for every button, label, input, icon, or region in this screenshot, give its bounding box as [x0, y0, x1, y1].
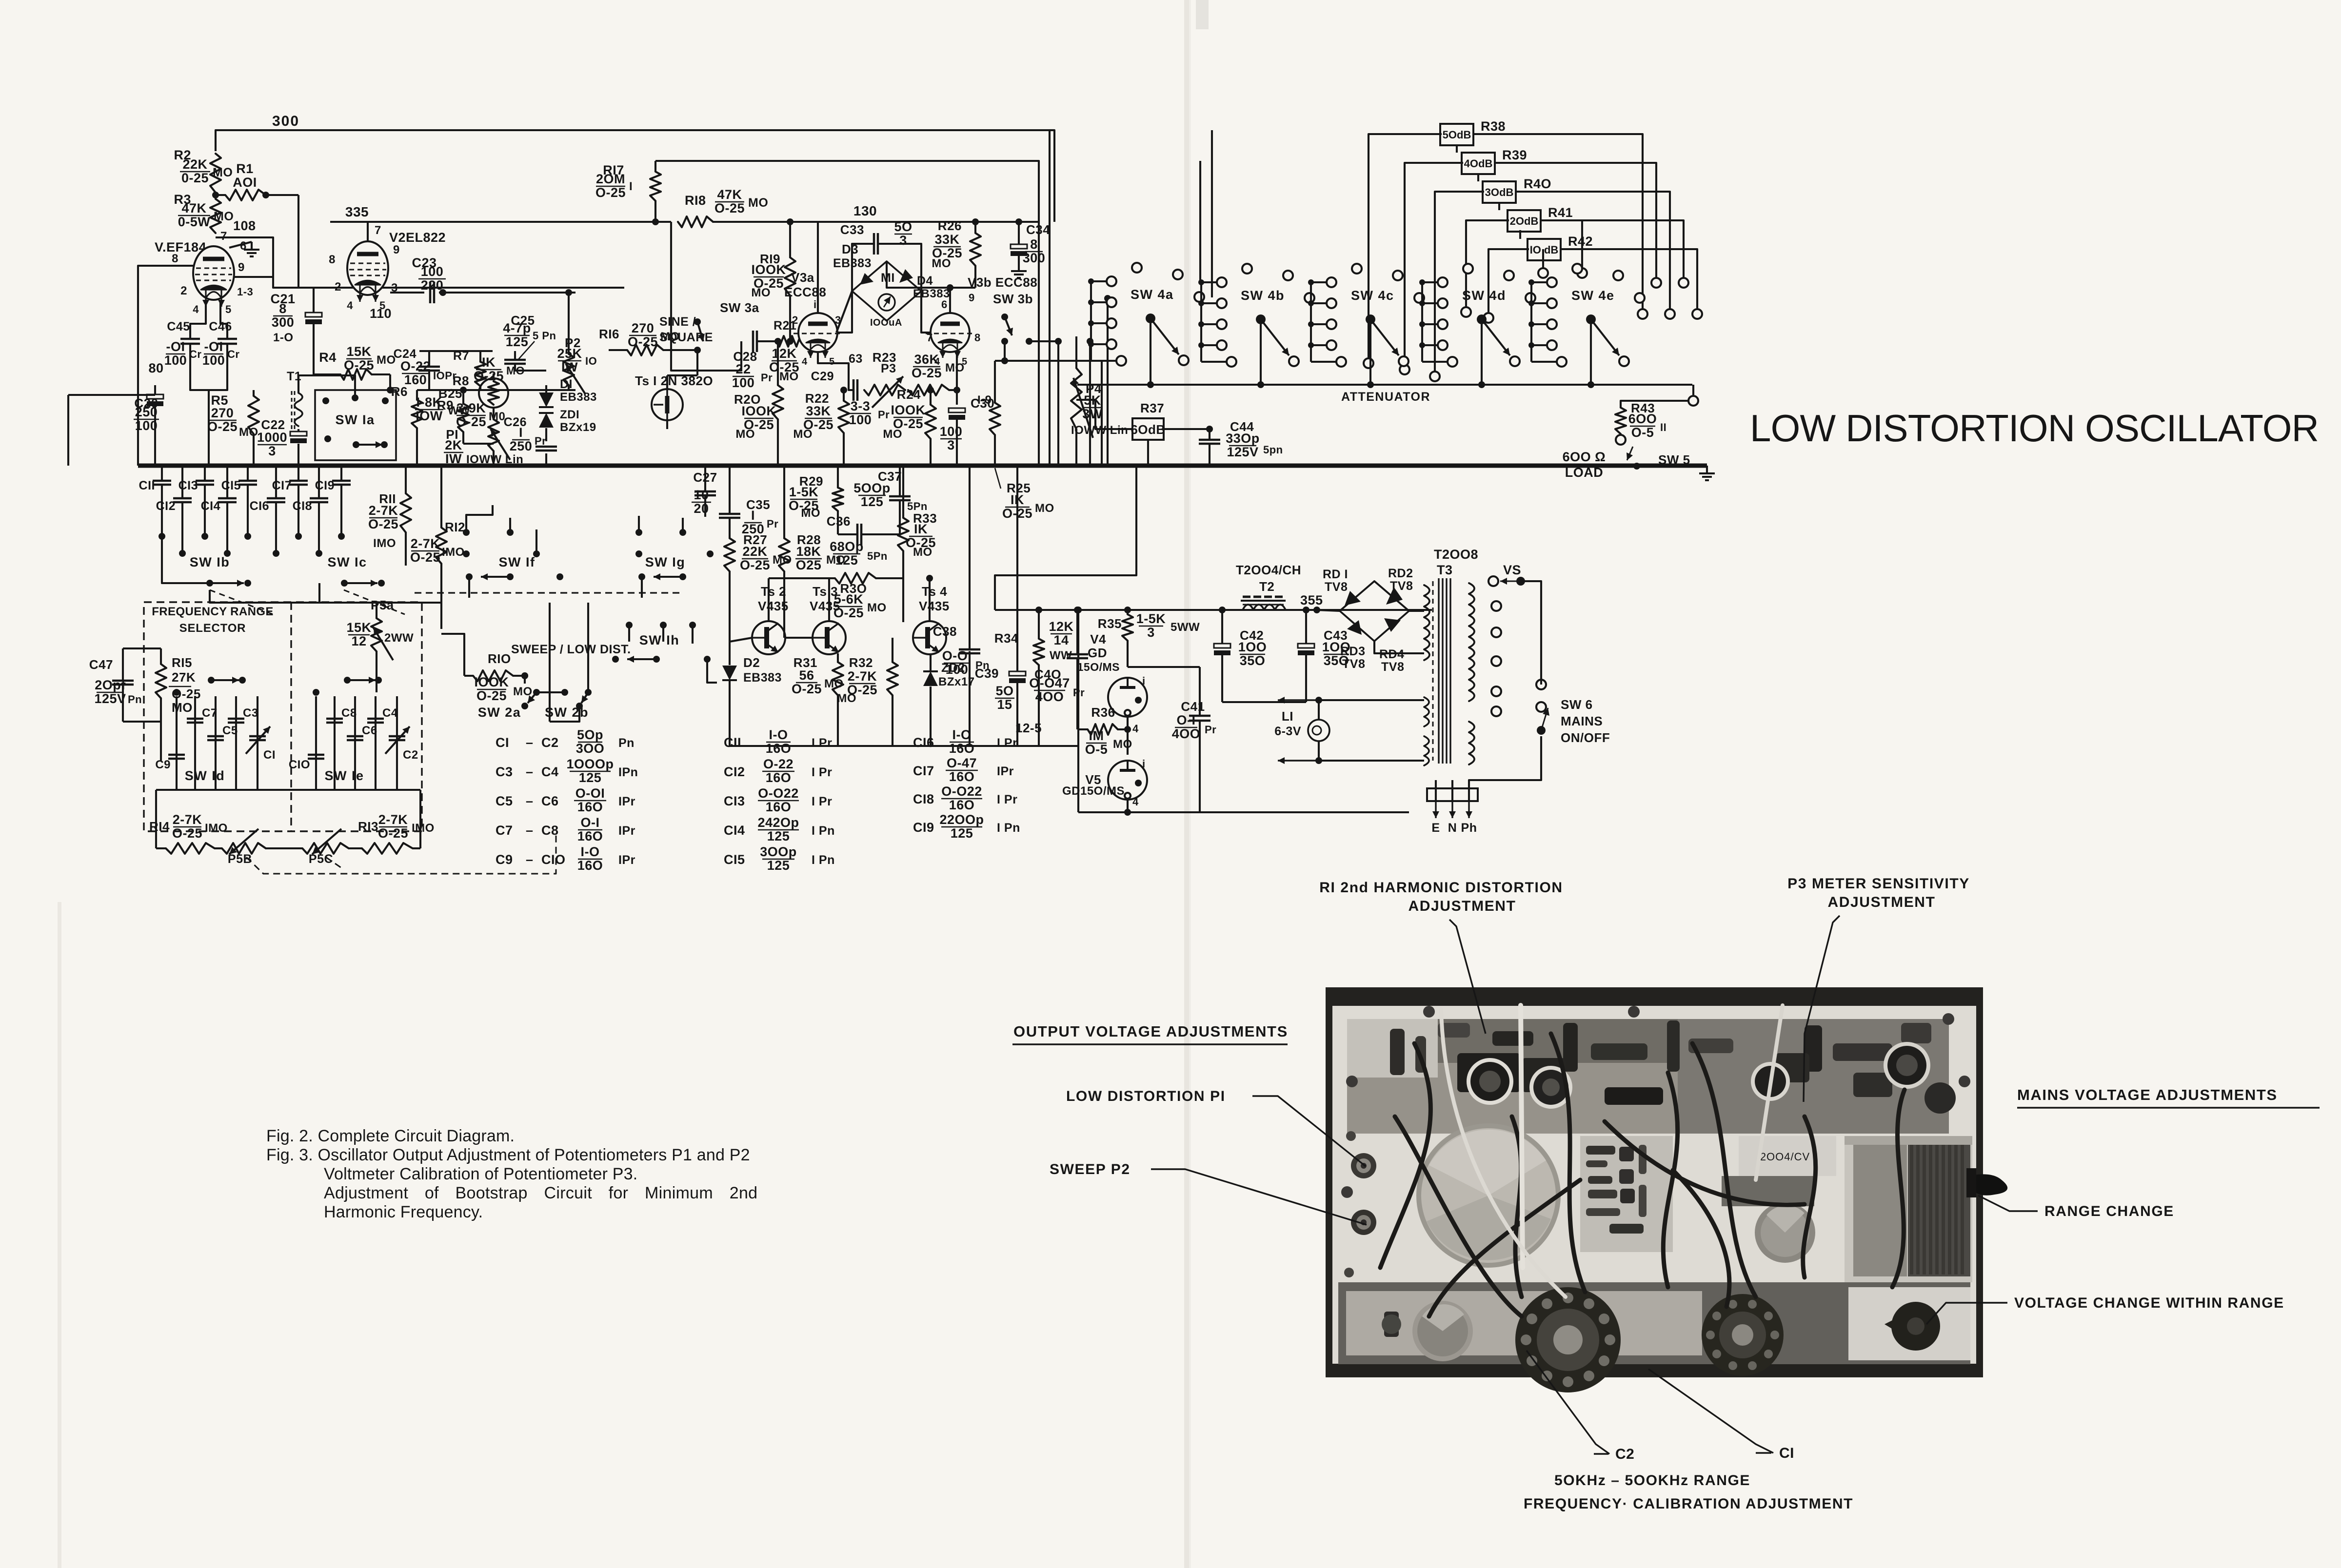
svg-text:16O: 16O	[766, 800, 792, 814]
mains terminal block E N Ph	[1427, 788, 1478, 801]
svg-text:33K: 33K	[806, 404, 831, 418]
svg-text:4OO: 4OO	[1172, 726, 1201, 741]
svg-text:I-O: I-O	[581, 844, 600, 859]
svg-text:100: 100	[849, 412, 872, 427]
svg-text:CI7: CI7	[913, 764, 934, 778]
svg-text:CI6: CI6	[250, 499, 269, 513]
svg-text:C33: C33	[840, 222, 864, 237]
svg-text:SW Ie: SW Ie	[324, 768, 364, 783]
svg-text:2: 2	[792, 314, 798, 326]
svg-text:2Opf: 2Opf	[95, 678, 126, 692]
wire feedback taps to SW4b comb	[1199, 161, 1201, 281]
switch SW 4d floating contacts	[1463, 264, 1473, 274]
svg-text:TV8: TV8	[1325, 580, 1348, 594]
svg-text:15K: 15K	[346, 344, 371, 359]
svg-text:3OdB: 3OdB	[1485, 186, 1514, 198]
wire R1 to C21 branch	[298, 195, 299, 288]
capacitor CI6	[275, 466, 277, 497]
svg-text:C21: C21	[270, 292, 295, 306]
photo left knob P2	[1351, 1210, 1376, 1235]
wire SW3a to Ts1	[696, 350, 698, 375]
svg-text:C8: C8	[541, 823, 559, 838]
svg-text:C6: C6	[541, 794, 559, 808]
svg-text:I-O: I-O	[769, 727, 788, 742]
svg-text:T2OO4/CH: T2OO4/CH	[1236, 563, 1301, 577]
wire V3a anode	[817, 222, 819, 313]
svg-text:i: i	[1142, 675, 1146, 687]
capacitor CII	[161, 466, 163, 480]
svg-text:C45: C45	[167, 320, 190, 333]
svg-text:14: 14	[1053, 633, 1069, 647]
svg-text:E: E	[1431, 821, 1440, 835]
svg-text:7: 7	[375, 224, 381, 237]
svg-text:MO: MO	[239, 426, 258, 439]
svg-text:16O: 16O	[949, 769, 975, 784]
svg-text:Ph: Ph	[1461, 821, 1477, 835]
wire bridge to tubes	[836, 291, 852, 333]
wire 12.5V rail	[995, 609, 1432, 611]
wire top network joins	[417, 389, 575, 391]
svg-text:6OO Ω: 6OO Ω	[1563, 450, 1606, 464]
svg-text:47K: 47K	[717, 187, 742, 202]
switch SW 4c rotor	[1366, 314, 1375, 324]
svg-text:Pr: Pr	[767, 518, 778, 530]
svg-text:15: 15	[997, 697, 1012, 712]
resistor R36	[1088, 724, 1118, 735]
dashed gang link P5	[246, 835, 556, 874]
svg-text:3-9K: 3-9K	[456, 401, 486, 415]
svg-text:C4: C4	[382, 706, 398, 720]
svg-text:I Pn: I Pn	[812, 853, 835, 867]
wire 50dB left leg	[1369, 134, 1442, 363]
photo top strip components	[1390, 1029, 1405, 1075]
svg-text:RD3: RD3	[1340, 645, 1366, 658]
photo left screws small	[1346, 1131, 1356, 1141]
svg-text:V4: V4	[1090, 632, 1106, 647]
svg-text:2-7K: 2-7K	[369, 503, 398, 518]
svg-text:Pn: Pn	[618, 736, 635, 750]
capacitor C24	[418, 366, 440, 368]
svg-text:2: 2	[335, 280, 341, 294]
svg-text:II: II	[1660, 421, 1666, 433]
svg-text:SINE /: SINE /	[659, 315, 696, 329]
ground C34	[1018, 263, 1020, 271]
svg-text:Fig. 2. Complete Circuit Diag: Fig. 2. Complete Circuit Diagram.	[266, 1127, 515, 1145]
switch SW1c contacts	[273, 550, 279, 557]
svg-text:63: 63	[849, 352, 863, 366]
svg-text:Pr: Pr	[878, 409, 890, 421]
svg-text:C2: C2	[541, 735, 559, 750]
wire V3b cathode chain	[956, 353, 958, 390]
capacitor C23	[429, 282, 432, 303]
switch SW 4c left comb wire	[1310, 282, 1312, 362]
svg-text:Pr: Pr	[1205, 724, 1216, 736]
svg-text:CI9: CI9	[913, 820, 934, 835]
wire V2 anode to C23	[390, 292, 424, 294]
wire C20	[154, 385, 156, 394]
svg-text:CI9: CI9	[315, 479, 335, 492]
svg-text:IK: IK	[914, 522, 928, 536]
svg-text:RI8: RI8	[685, 193, 706, 208]
svg-text:Harmonic Frequency.: Harmonic Frequency.	[324, 1203, 483, 1221]
svg-text:MO: MO	[793, 428, 813, 441]
svg-text:SW Id: SW Id	[185, 768, 225, 783]
svg-text:AOI: AOI	[233, 175, 257, 190]
svg-text:-OI: -OI	[204, 339, 223, 354]
photo screws	[1346, 1076, 1358, 1087]
svg-text:100: 100	[202, 353, 225, 368]
svg-text:IMO: IMO	[442, 546, 465, 559]
svg-text:100: 100	[421, 264, 444, 279]
svg-text:15K: 15K	[346, 620, 371, 635]
ground at V1 pin6	[229, 242, 252, 248]
svg-text:V2EL822: V2EL822	[389, 230, 446, 245]
resistor R30	[835, 573, 876, 584]
svg-text:SW 3a: SW 3a	[720, 300, 759, 315]
svg-text:100: 100	[940, 424, 963, 439]
svg-text:RI3: RI3	[358, 819, 378, 834]
svg-text:CI: CI	[1779, 1445, 1794, 1461]
svg-text:35O: 35O	[1240, 653, 1266, 668]
resistor R31	[833, 662, 843, 695]
svg-text:2-7K: 2-7K	[411, 536, 440, 551]
svg-text:125: 125	[767, 829, 790, 843]
svg-text:MO: MO	[735, 428, 755, 441]
svg-text:CI5: CI5	[724, 852, 745, 867]
switch SW 4d left comb wire	[1421, 282, 1423, 362]
svg-text:CI8: CI8	[293, 499, 312, 513]
switch SW1f contacts	[463, 529, 470, 536]
svg-text:C2: C2	[1615, 1446, 1634, 1462]
wire 10dB right leg	[1561, 249, 1697, 309]
svg-text:CI7: CI7	[272, 479, 292, 492]
svg-text:SW 5: SW 5	[1658, 452, 1690, 467]
svg-text:MAINS: MAINS	[1561, 714, 1603, 728]
svg-text:2OM: 2OM	[596, 172, 625, 186]
svg-text:16O: 16O	[949, 798, 975, 812]
svg-text:SW Ih: SW Ih	[639, 633, 680, 647]
svg-text:15O/MS: 15O/MS	[1077, 661, 1120, 673]
capacitor C36	[856, 524, 859, 545]
wire P4 to R37	[1076, 400, 1132, 429]
svg-text:SWEEP / LOW DIST.: SWEEP / LOW DIST.	[511, 643, 631, 656]
switch SW 4a rotor	[1146, 314, 1155, 323]
svg-text:2OdB: 2OdB	[1510, 215, 1539, 227]
svg-text:R26: R26	[938, 218, 962, 233]
svg-text:3OOp: 3OOp	[760, 844, 797, 859]
svg-text:O-O22: O-O22	[941, 784, 982, 799]
resistor R18	[678, 216, 713, 227]
svg-text:10: 10	[694, 488, 709, 502]
svg-text:5 Pn: 5 Pn	[533, 330, 556, 342]
resistor R28	[779, 538, 790, 571]
svg-text:22K: 22K	[742, 544, 767, 559]
potentiometer P5b	[222, 843, 266, 854]
resistor R15	[156, 664, 166, 698]
switch SW1g rotor	[679, 573, 686, 580]
svg-text:0-25: 0-25	[181, 171, 209, 185]
wire 40dB right leg	[1495, 163, 1656, 278]
svg-text:O-47: O-47	[947, 756, 977, 770]
capacitor C25	[504, 359, 526, 361]
svg-text:RI2: RI2	[445, 520, 465, 534]
svg-text:130: 130	[853, 203, 877, 218]
capacitor C28	[752, 331, 754, 352]
capacitor CI2	[181, 466, 183, 497]
switch SW1d rotor	[173, 689, 180, 696]
svg-text:RIO: RIO	[488, 651, 511, 666]
wire 108 node to V2 grid	[216, 237, 624, 288]
wire rail drop to R16/SW3a	[670, 222, 672, 350]
capacitor C44	[1199, 439, 1220, 441]
svg-text:IK: IK	[482, 355, 496, 370]
svg-text:FREQUENCY· CALIBRATION ADJUST: FREQUENCY· CALIBRATION ADJUSTMENT	[1524, 1496, 1853, 1512]
svg-text:MO: MO	[837, 692, 856, 705]
variable capacitor C1	[257, 696, 258, 790]
svg-text:22: 22	[735, 362, 751, 376]
svg-text:SWEEP P2: SWEEP P2	[1050, 1161, 1131, 1177]
switch SW 4d rotor	[1477, 314, 1487, 324]
svg-text:5O: 5O	[894, 219, 912, 234]
svg-text:3-3: 3-3	[851, 399, 871, 413]
svg-text:RI5: RI5	[172, 655, 192, 670]
svg-text:5WW: 5WW	[1170, 621, 1200, 634]
svg-text:FREQUENCY RANGE: FREQUENCY RANGE	[152, 605, 274, 618]
capacitor CI3	[204, 466, 206, 480]
svg-text:IPn: IPn	[618, 765, 638, 779]
svg-text:I: I	[519, 425, 523, 440]
svg-text:125: 125	[767, 858, 790, 873]
capacitor CI5	[247, 466, 249, 480]
svg-text:WW: WW	[1050, 649, 1072, 662]
svg-text:5OdB: 5OdB	[1443, 129, 1471, 141]
svg-text:–: –	[526, 823, 534, 838]
svg-text:3: 3	[1147, 625, 1155, 640]
svg-text:O-25: O-25	[792, 682, 822, 696]
svg-text:CII: CII	[724, 735, 741, 750]
svg-text:O-25: O-25	[368, 517, 398, 531]
resistor R32	[887, 662, 898, 695]
wire C28 branch	[671, 341, 741, 371]
svg-text:GD: GD	[1088, 646, 1107, 660]
svg-text:O-I: O-I	[1177, 713, 1196, 727]
resistor R29	[833, 488, 843, 511]
svg-text:1OOOp: 1OOOp	[566, 757, 614, 771]
wire SW4 rotor drops	[1150, 323, 1151, 385]
svg-text:335: 335	[345, 204, 369, 219]
svg-text:108: 108	[233, 218, 256, 233]
wire pad chain verticals	[1456, 144, 1458, 153]
svg-text:1-3: 1-3	[237, 286, 253, 298]
svg-text:100: 100	[164, 353, 187, 368]
svg-text:4: 4	[193, 303, 199, 315]
svg-text:Pr: Pr	[535, 435, 546, 447]
svg-text:RI 2nd HARMONIC DISTORTION: RI 2nd HARMONIC DISTORTION	[1319, 880, 1563, 896]
svg-text:4: 4	[1132, 723, 1139, 735]
svg-text:3W: 3W	[1082, 407, 1103, 421]
wire 335 rail	[330, 222, 368, 241]
photo chassis plate	[1332, 1006, 1976, 1364]
photo mains transformer	[1845, 1136, 1972, 1282]
wire cap bank bottom rail	[156, 789, 420, 791]
zener ZD1 BZx19	[539, 413, 554, 428]
svg-text:B25: B25	[438, 386, 462, 401]
wire R26 to bridge top	[887, 261, 975, 288]
capacitor C38	[959, 648, 980, 651]
svg-text:C4: C4	[541, 764, 559, 779]
capacitor C37	[889, 495, 911, 498]
capacitor C43	[1298, 644, 1314, 648]
svg-text:125: 125	[506, 334, 529, 349]
svg-text:I Pr: I Pr	[997, 793, 1017, 806]
svg-text:EB383: EB383	[743, 671, 782, 685]
wire SW1 rotor tie	[210, 590, 441, 603]
svg-text:IMO: IMO	[412, 822, 435, 835]
svg-text:O-25: O-25	[474, 369, 504, 383]
svg-text:220: 220	[421, 278, 444, 293]
capacitor C7	[194, 696, 196, 790]
capacitor CI4	[226, 466, 228, 497]
svg-text:1-O: 1-O	[273, 331, 294, 344]
svg-text:P5a: P5a	[371, 598, 394, 612]
svg-text:IOOK: IOOK	[891, 403, 925, 417]
svg-text:R23: R23	[873, 350, 896, 365]
wire regulator box	[1077, 610, 1079, 812]
wire main 0V bus	[138, 464, 1202, 468]
svg-text:1-5K: 1-5K	[1136, 611, 1166, 626]
svg-text:C7: C7	[496, 823, 513, 838]
photo wires	[1380, 1043, 1430, 1268]
svg-text:8: 8	[329, 253, 336, 266]
svg-text:C36: C36	[827, 514, 851, 529]
svg-text:110: 110	[370, 306, 392, 321]
switch SW 4b rotor	[1256, 314, 1266, 324]
switch SW 4a left comb wire	[1090, 281, 1092, 361]
svg-text:270: 270	[211, 406, 234, 420]
svg-text:R36: R36	[1091, 705, 1115, 720]
svg-text:MO: MO	[213, 166, 233, 179]
wire stage bottom rail 12.5	[730, 745, 1078, 747]
wire V4 to V5	[1127, 717, 1129, 755]
switch SW 4b floating contacts	[1242, 264, 1252, 274]
svg-text:3: 3	[268, 444, 276, 458]
svg-text:MO: MO	[779, 370, 799, 383]
svg-text:Cr: Cr	[227, 348, 239, 360]
svg-text:56: 56	[799, 668, 814, 683]
svg-text:SW Ic: SW Ic	[327, 555, 367, 569]
svg-text:I: I	[629, 180, 633, 193]
photo mid pcb	[1580, 1136, 1673, 1252]
svg-text:I Pn: I Pn	[997, 821, 1020, 835]
svg-text:R35: R35	[1098, 616, 1122, 631]
svg-text:LOW DISTORTION OSCILLATOR: LOW DISTORTION OSCILLATOR	[1750, 407, 2319, 450]
resistor R25	[990, 403, 1000, 435]
transformer T3 secondary HV winding	[1424, 585, 1429, 660]
svg-text:SW 4a: SW 4a	[1131, 287, 1174, 302]
photo bottom toggle	[1384, 1312, 1399, 1337]
svg-text:160: 160	[404, 372, 427, 387]
svg-text:Ts 3: Ts 3	[813, 584, 838, 599]
svg-text:47K: 47K	[181, 201, 206, 216]
svg-text:MO: MO	[932, 257, 951, 270]
svg-text:C3: C3	[243, 706, 258, 720]
svg-text:18K: 18K	[796, 544, 821, 559]
svg-text:MO: MO	[867, 601, 887, 614]
svg-text:I Pr: I Pr	[812, 765, 832, 779]
svg-text:6OdB: 6OdB	[1131, 422, 1165, 437]
wire cathode bank to bus	[208, 390, 210, 466]
capacitor C40	[1067, 653, 1088, 656]
svg-text:EB383: EB383	[560, 391, 597, 404]
svg-text:MO: MO	[945, 361, 965, 374]
photo voltage selector knob	[1891, 1302, 1940, 1351]
svg-text:Voltmeter Calibration of Poten: Voltmeter Calibration of Potentiometer P…	[324, 1165, 637, 1183]
wire V1 pin9 to C21	[234, 276, 273, 278]
svg-text:RANGE CHANGE: RANGE CHANGE	[2044, 1203, 2174, 1219]
potentiometer P4	[1071, 368, 1082, 429]
svg-text:ADJUSTMENT: ADJUSTMENT	[1408, 898, 1516, 914]
svg-text:LI: LI	[1282, 709, 1293, 724]
photo round can mid right	[1755, 1202, 1815, 1263]
svg-text:CI4: CI4	[201, 499, 220, 513]
svg-text:5pn: 5pn	[1263, 444, 1283, 456]
svg-text:O-25: O-25	[207, 419, 238, 434]
potentiometer P1	[488, 419, 499, 451]
svg-text:TV8: TV8	[1342, 657, 1365, 671]
resistor R11	[400, 493, 411, 532]
wire Ts1 drain/source	[666, 380, 668, 388]
wire 130 rail to V3 cluster	[713, 221, 1039, 223]
svg-text:I Pr: I Pr	[812, 736, 832, 750]
svg-text:5: 5	[225, 303, 232, 315]
svg-text:C26: C26	[504, 415, 527, 429]
wire 10dB left leg	[1488, 249, 1529, 318]
svg-text:33Op: 33Op	[1226, 431, 1260, 446]
svg-text:D4: D4	[917, 274, 933, 288]
wire 30dB left leg	[1435, 192, 1484, 376]
svg-text:16O: 16O	[766, 741, 792, 756]
svg-text:O-25: O-25	[456, 414, 486, 429]
svg-text:Pn: Pn	[128, 693, 142, 706]
wire verticals feedback bundle	[1038, 222, 1040, 466]
resistor R12	[436, 528, 447, 564]
attenuator pad R39 40dB	[1462, 153, 1495, 174]
svg-text:R39: R39	[1502, 148, 1527, 162]
resistor R7	[475, 362, 486, 386]
switch SW1g contacts	[635, 529, 642, 536]
switch SW 4b left comb wire	[1200, 282, 1202, 362]
heater winding	[1424, 697, 1429, 726]
resistor R26	[970, 233, 981, 266]
svg-text:C39: C39	[975, 666, 999, 681]
svg-text:SW 4c: SW 4c	[1351, 288, 1394, 303]
svg-text:C38: C38	[933, 624, 957, 639]
left rail	[67, 395, 69, 466]
svg-text:SW 4e: SW 4e	[1571, 288, 1615, 303]
resistor R4	[340, 369, 372, 380]
svg-text:IOOK: IOOK	[741, 404, 776, 418]
svg-text:16O: 16O	[577, 800, 603, 814]
svg-text:16O: 16O	[577, 858, 603, 873]
zener ZD2 BZx17	[923, 671, 938, 686]
svg-text:Ts 2: Ts 2	[761, 584, 786, 599]
switch SW1e rotor	[313, 689, 319, 696]
svg-text:O-25: O-25	[378, 826, 408, 841]
svg-text:V435: V435	[919, 599, 950, 613]
wire 335/130 rail	[330, 221, 671, 223]
svg-text:CI: CI	[496, 735, 509, 750]
svg-text:R34: R34	[994, 631, 1018, 646]
